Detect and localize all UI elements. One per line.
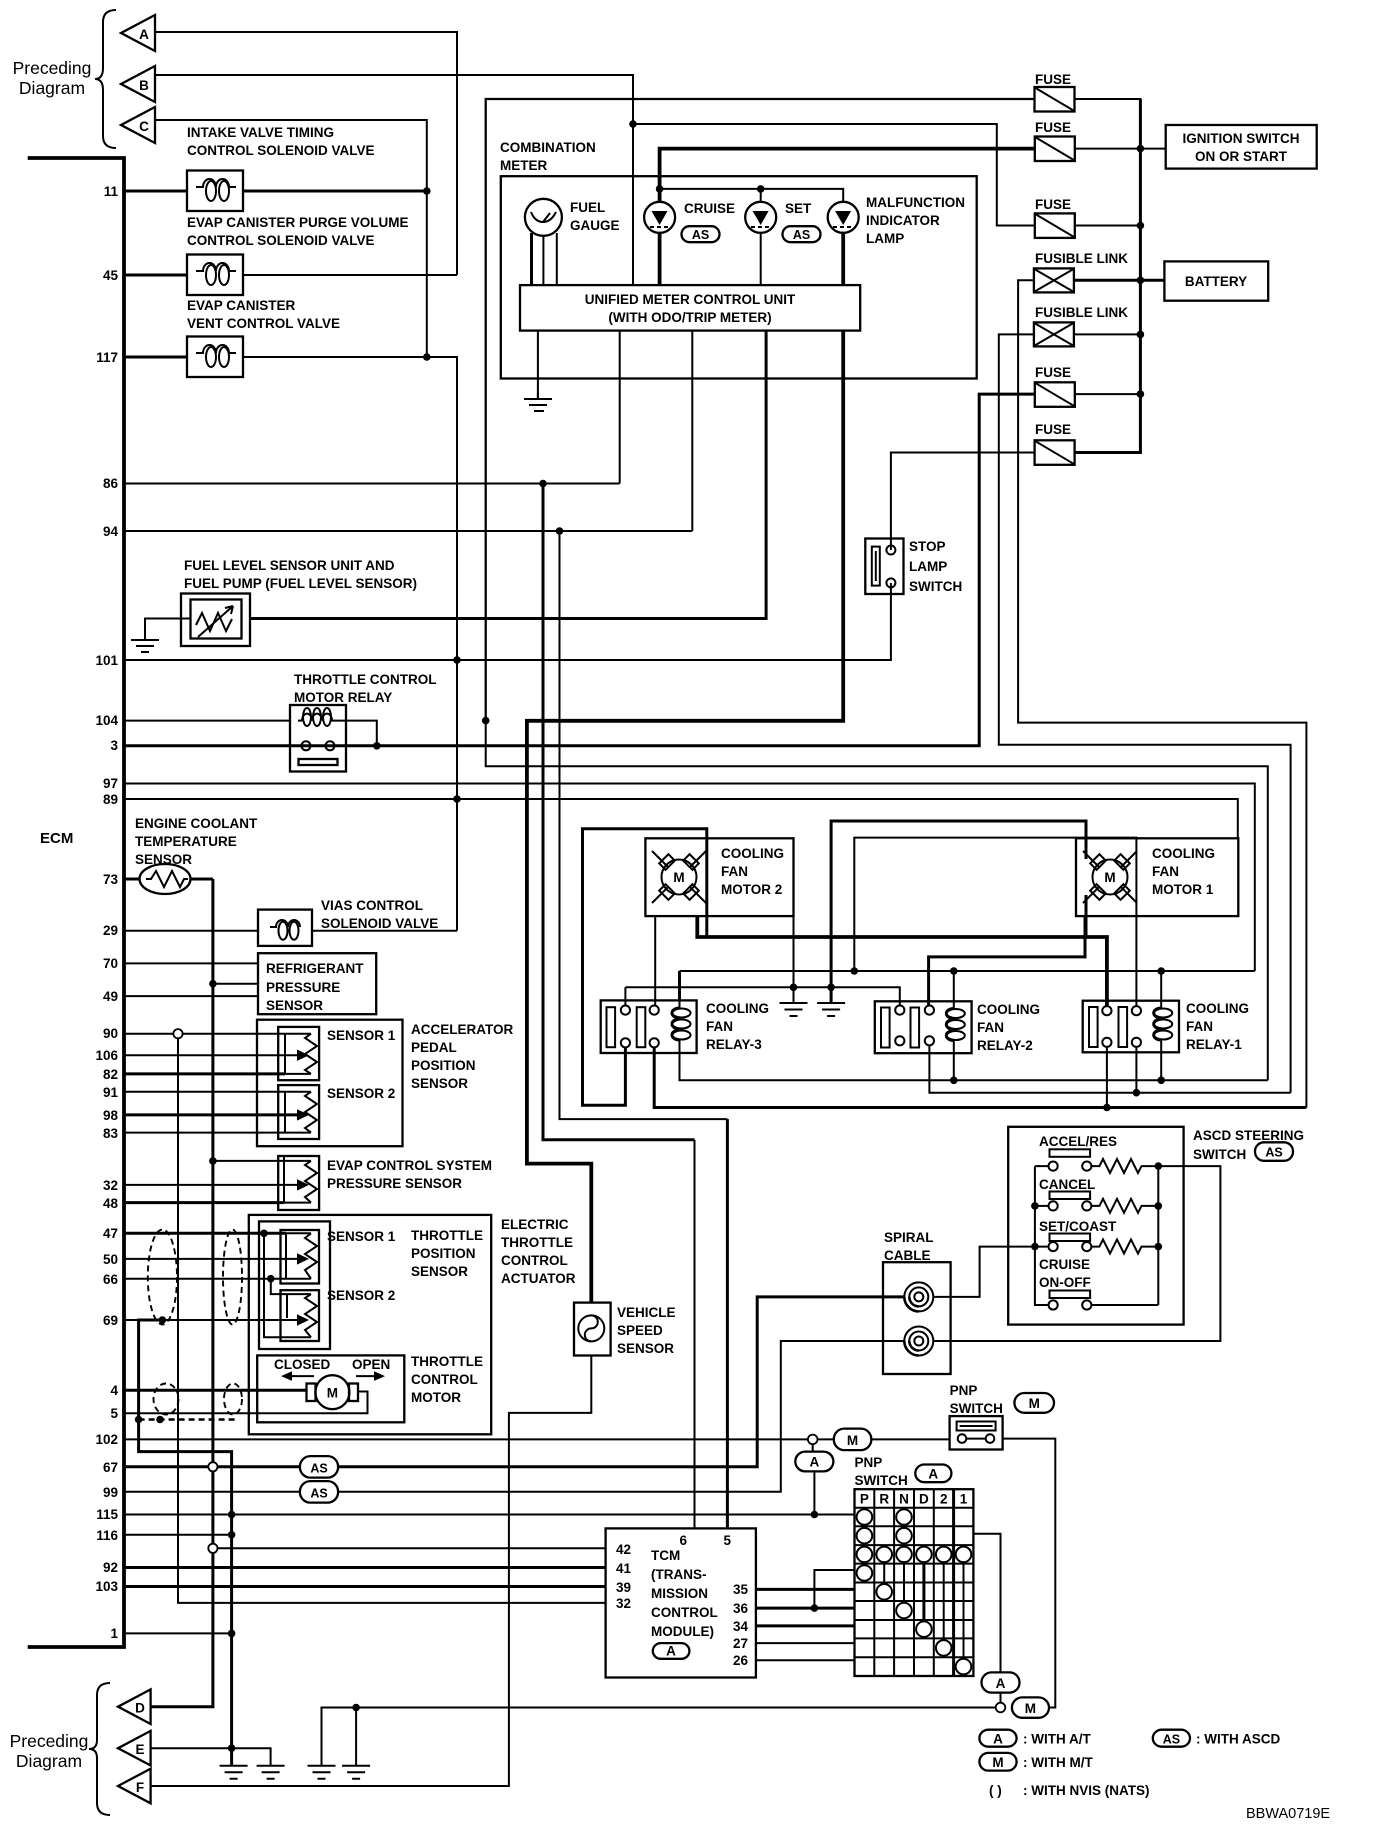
wire: set lamp to UMCU xyxy=(760,233,762,285)
svg-text:5: 5 xyxy=(723,1533,731,1548)
svg-text:SENSOR 1: SENSOR 1 xyxy=(327,1028,396,1043)
wire: ECM 94 to UMCU vertical xyxy=(124,530,692,532)
svg-text:THROTTLE CONTROL: THROTTLE CONTROL xyxy=(294,672,436,687)
connector circle: 90 line tap xyxy=(173,1029,182,1038)
refrigerant pressure sensor box xyxy=(258,953,376,1014)
switch button (accel/res) xyxy=(1050,1149,1091,1157)
wire: cruise on-off to right bus xyxy=(1091,1304,1158,1306)
junction: set/coast at left bus (spiral feed) xyxy=(1031,1243,1039,1251)
wire: ECM 115 to PNP switch (AT) grid row 1 xyxy=(124,1514,855,1516)
svg-text:FUSE: FUSE xyxy=(1035,120,1071,135)
wire: 36 branch up to PNP grid row 4 xyxy=(814,1570,854,1608)
TCM box xyxy=(606,1528,756,1677)
svg-text:(WITH ODO/TRIP METER): (WITH ODO/TRIP METER) xyxy=(608,310,771,325)
wire: ECM 90 to APPS sensor 1 supply xyxy=(124,1033,285,1035)
arrow: closed direction xyxy=(292,1375,314,1377)
wire: 47 branch down to TPS sensor 2 return xyxy=(264,1233,311,1337)
svg-text:EVAP CANISTER PURGE VOLUME: EVAP CANISTER PURGE VOLUME xyxy=(187,215,409,230)
wire: fusible link 1 load side down to cooling fan relay contact bus xyxy=(1018,280,1306,1107)
switch button (cruise on-off) xyxy=(1050,1291,1091,1299)
svg-text:47: 47 xyxy=(103,1226,118,1241)
svg-text:EVAP CANISTER: EVAP CANISTER xyxy=(187,298,296,313)
M pill (on 102 line) xyxy=(834,1429,872,1451)
junction: ground bus at ground 2 xyxy=(827,984,835,992)
wire: ECM 103 to TCM pin 39 xyxy=(124,1585,606,1588)
svg-text:99: 99 xyxy=(103,1485,118,1500)
wire: B right, down x633 to unified meter control unit xyxy=(155,75,633,285)
battery rail vertical xyxy=(1075,99,1141,453)
junction: relay 2 coil at return bus xyxy=(950,1077,958,1085)
wire: cruise lamp to UMCU xyxy=(658,233,662,285)
svg-text:RELAY-3: RELAY-3 xyxy=(706,1037,762,1052)
engine coolant temperature sensor (thermistor) xyxy=(140,864,191,894)
connector triangle F xyxy=(118,1769,151,1804)
wire: motor 1 upper-left brush to ground 2 xyxy=(831,821,1086,1003)
throttle control motor box xyxy=(257,1355,404,1422)
svg-text:CONTROL SOLENOID VALVE: CONTROL SOLENOID VALVE xyxy=(187,143,375,158)
svg-text:A: A xyxy=(666,1644,676,1659)
svg-text:R: R xyxy=(879,1492,889,1507)
junction: ground 4 tap xyxy=(352,1704,360,1712)
svg-text:COMBINATION: COMBINATION xyxy=(500,140,596,155)
switch button (cancel) xyxy=(1050,1192,1091,1200)
solenoid valve (EVAP canister purge volume) xyxy=(187,255,243,296)
accelerator pedal position sensor outer box xyxy=(257,1020,403,1146)
wire: fuse 3 to battery rail xyxy=(1075,225,1141,227)
unified meter control unit box xyxy=(520,285,860,331)
wire: 86 branch down to TCM pin 6 xyxy=(543,484,695,1140)
wire: spiral cable wire 1 to ASCD steering switch xyxy=(933,1247,1050,1297)
svg-text:104: 104 xyxy=(95,713,118,728)
junction: x457 at 101-line xyxy=(453,656,461,664)
wire: ECM 101 to stop lamp switch xyxy=(124,583,891,660)
spiral symbol 2 xyxy=(904,1327,933,1356)
junction: rail at battery xyxy=(1137,277,1145,285)
AS pill (cruise) xyxy=(682,226,720,242)
switch contacts (cancel) xyxy=(1049,1201,1058,1210)
svg-text:FAN: FAN xyxy=(1152,864,1179,879)
svg-text:CRUISE: CRUISE xyxy=(1039,1257,1090,1272)
svg-text:FUSE: FUSE xyxy=(1035,365,1071,380)
fusible link 2 xyxy=(1034,322,1074,346)
junction: 116 line at ground chain xyxy=(228,1531,236,1539)
wire: 66 branch down to TPS sensor 2 supply xyxy=(271,1279,287,1294)
junction: 36 line branch xyxy=(811,1604,819,1612)
svg-text:MISSION: MISSION xyxy=(651,1586,708,1601)
svg-text:50: 50 xyxy=(103,1252,118,1267)
brace (bottom) xyxy=(89,1683,110,1815)
svg-text:FAN: FAN xyxy=(721,864,748,879)
svg-text:SENSOR: SENSOR xyxy=(617,1341,674,1356)
wire: motor 1 right lead / relay1 feed and link bus xyxy=(854,838,1136,1006)
junction: rail at fuse 3 xyxy=(1137,222,1145,230)
svg-text:CONTROL: CONTROL xyxy=(501,1253,568,1268)
PNP grid contacts column N xyxy=(896,1509,912,1618)
junction: cancel row at left bus xyxy=(1031,1202,1039,1210)
ignition switch box xyxy=(1166,125,1317,169)
junction: E line at shield chain xyxy=(228,1744,236,1752)
shield ellipse (motor harness, right) xyxy=(224,1384,242,1415)
svg-text:COOLING: COOLING xyxy=(1152,846,1215,861)
wire: UMCU thick lead down-left-down to vehicle speed sensor xyxy=(527,331,843,1303)
svg-text:FUSE: FUSE xyxy=(1035,197,1071,212)
svg-text:ON OR START: ON OR START xyxy=(1195,149,1288,164)
svg-text:3: 3 xyxy=(110,738,118,753)
svg-text:F: F xyxy=(136,1780,144,1795)
svg-text:67: 67 xyxy=(103,1460,118,1475)
svg-text:ACCEL/RES: ACCEL/RES xyxy=(1039,1134,1117,1149)
relay coil top bus (from ECM 97) xyxy=(680,970,1255,972)
svg-text:48: 48 xyxy=(103,1196,119,1211)
wire: fusible link 2 to battery rail xyxy=(1074,333,1141,335)
svg-text:MODULE): MODULE) xyxy=(651,1624,714,1639)
wire: TCM 35 to PNP grid row 5 xyxy=(756,1588,855,1591)
wire: TCM 26 to PNP grid row 9 xyxy=(756,1659,855,1661)
svg-text:LAMP: LAMP xyxy=(866,231,904,246)
wire: ECM 11 to solenoid xyxy=(124,190,187,193)
svg-text:103: 103 xyxy=(95,1579,118,1594)
wire: ECM 117 to solenoid xyxy=(124,356,187,359)
svg-text:SPEED: SPEED xyxy=(617,1323,663,1338)
cruise indicator lamp xyxy=(644,202,675,233)
junction: relay 1 bottom contact 2 at bus 2 xyxy=(1133,1089,1141,1097)
electric throttle control actuator outer box xyxy=(249,1215,491,1434)
svg-text:32: 32 xyxy=(616,1596,631,1611)
svg-text:CONTROL: CONTROL xyxy=(411,1372,478,1387)
wire: shield drain jog down to ground chain xyxy=(139,1320,232,1766)
svg-text:: WITH M/T: : WITH M/T xyxy=(1023,1755,1093,1770)
APPS sensor 2 box xyxy=(278,1085,319,1139)
wire: sensor ground to EVAP pressure sensor supply xyxy=(213,1156,284,1161)
svg-text:LAMP: LAMP xyxy=(909,559,947,574)
svg-text:FUSIBLE LINK: FUSIBLE LINK xyxy=(1035,305,1128,320)
svg-text:6: 6 xyxy=(679,1533,687,1548)
svg-text:42: 42 xyxy=(616,1542,631,1557)
wire+resistor (set/coast row) xyxy=(1091,1240,1158,1254)
wire: ECM 70 to refrigerant sensor xyxy=(124,962,258,964)
cooling fan motor 2 assembly box xyxy=(645,838,793,916)
ASCD left contact bus xyxy=(1035,1166,1049,1305)
svg-text:: WITH ASCD: : WITH ASCD xyxy=(1196,1732,1280,1747)
spiral symbol 1 xyxy=(904,1282,933,1311)
wire: 90 tap down to TCM pin 32 xyxy=(178,1038,606,1603)
svg-text:83: 83 xyxy=(103,1126,119,1141)
svg-text:1: 1 xyxy=(110,1626,118,1641)
svg-text:73: 73 xyxy=(103,872,119,887)
svg-text:M: M xyxy=(1029,1396,1040,1411)
wire: relay 2 bottom contact 2 to contact feed bus 2 xyxy=(929,1045,1290,1092)
svg-text:C: C xyxy=(139,119,149,134)
svg-text:82: 82 xyxy=(103,1067,118,1082)
wire: ECM 89 right and down to cooling fan motor 1 box xyxy=(124,799,1238,838)
wire: C right, down x426 to 11-line and 117-line xyxy=(155,120,427,357)
switch contacts (accel/res) xyxy=(1049,1162,1058,1171)
svg-text:SWITCH: SWITCH xyxy=(1193,1147,1246,1162)
svg-text:A: A xyxy=(996,1676,1006,1691)
junction: link bus at relay coil bus xyxy=(851,967,859,975)
wire: ECM 106 wiper arrow into APPS sensor 1 xyxy=(124,1054,297,1056)
wire: A branch from 102 circle down to A pill xyxy=(812,1444,814,1451)
connector triangle B xyxy=(121,66,155,102)
junction: ignition switch node xyxy=(1137,145,1145,153)
wire: relay 1 coil bottom to coil return bus xyxy=(1160,1052,1162,1080)
svg-text:(TRANS-: (TRANS- xyxy=(651,1567,707,1582)
svg-text:FUEL: FUEL xyxy=(570,200,605,215)
cooling fan relay 2 xyxy=(875,1001,972,1053)
svg-text:86: 86 xyxy=(103,476,119,491)
wire: ECM 98 wiper arrow into APPS sensor 2 xyxy=(124,1113,297,1116)
svg-text:29: 29 xyxy=(103,923,118,938)
svg-text:ON-OFF: ON-OFF xyxy=(1039,1275,1091,1290)
M pill (MT return) xyxy=(1012,1697,1049,1717)
wire: ECM 4 to throttle motor xyxy=(124,1389,307,1392)
svg-text:M: M xyxy=(992,1755,1003,1770)
wire: ground 4 stem xyxy=(355,1708,357,1766)
set indicator lamp xyxy=(745,202,776,233)
svg-text:FUEL PUMP (FUEL LEVEL SENSOR): FUEL PUMP (FUEL LEVEL SENSOR) xyxy=(184,576,417,591)
PNP grid contacts column D xyxy=(916,1547,932,1637)
svg-text:39: 39 xyxy=(616,1580,631,1595)
wire: ECM 32 wiper arrow into EVAP pressure sensor xyxy=(124,1184,297,1186)
switch contacts (cruise on-off) xyxy=(1049,1300,1058,1309)
junction: pin 1 line at ground chain xyxy=(228,1630,236,1638)
wire: TCM 36 to PNP grid row 6 xyxy=(756,1607,855,1610)
svg-text:1: 1 xyxy=(960,1492,968,1507)
svg-text:SET/COAST: SET/COAST xyxy=(1039,1219,1117,1234)
wire: B branch y124 to fuse 3 xyxy=(633,124,1035,226)
wire: fuse 5 to stop lamp switch xyxy=(891,453,1035,551)
junction: C vertical at 117-line xyxy=(423,353,431,361)
svg-text:FUSE: FUSE xyxy=(1035,72,1071,87)
svg-text:BBWA0719E: BBWA0719E xyxy=(1246,1806,1330,1822)
svg-text:PNP: PNP xyxy=(950,1383,978,1398)
junction: shield tie at 4/5 shield xyxy=(135,1416,143,1424)
svg-text:ELECTRIC: ELECTRIC xyxy=(501,1217,569,1232)
svg-text:27: 27 xyxy=(733,1636,748,1651)
svg-text:( ): ( ) xyxy=(989,1783,1002,1798)
ground 4 xyxy=(342,1766,370,1779)
svg-text:Diagram: Diagram xyxy=(16,1751,82,1771)
svg-text:5: 5 xyxy=(110,1406,118,1421)
svg-text:AS: AS xyxy=(1163,1733,1180,1747)
shield ellipse (motor harness, left) xyxy=(154,1384,179,1415)
wire: fusible link 1 to battery rail xyxy=(1074,279,1141,282)
wire: ECM 116 to ground chain xyxy=(124,1534,232,1536)
svg-text:94: 94 xyxy=(103,524,119,539)
wire: motor return loop to ECM 5 xyxy=(124,1392,368,1414)
svg-text:SWITCH: SWITCH xyxy=(909,579,962,594)
A pill (PNP AT label) xyxy=(915,1465,951,1483)
svg-text:41: 41 xyxy=(616,1561,632,1576)
solenoid valve (intake valve timing control) xyxy=(187,171,243,212)
svg-text:A: A xyxy=(993,1732,1003,1747)
junction: rail at fuse 4 xyxy=(1137,390,1145,398)
svg-text:THROTTLE: THROTTLE xyxy=(411,1228,483,1243)
svg-text:SET: SET xyxy=(785,201,812,216)
svg-text:CONTROL SOLENOID VALVE: CONTROL SOLENOID VALVE xyxy=(187,233,375,248)
svg-text:FUEL LEVEL SENSOR UNIT AND: FUEL LEVEL SENSOR UNIT AND xyxy=(184,558,395,573)
combination meter inner box xyxy=(501,176,977,378)
A pill (branch to PNP switch AT) xyxy=(795,1452,833,1472)
svg-text:SENSOR: SENSOR xyxy=(411,1264,468,1279)
AS pill (99 line) xyxy=(300,1481,338,1503)
svg-text:POSITION: POSITION xyxy=(411,1246,476,1261)
svg-text:36: 36 xyxy=(733,1601,749,1616)
wire: ECT sensor output to sensor ground line xyxy=(191,878,213,881)
wire: A to EVAP purge solenoid output (down x457 to 45-line) xyxy=(155,32,457,275)
svg-text:SWITCH: SWITCH xyxy=(950,1401,1003,1416)
svg-text:POSITION: POSITION xyxy=(411,1058,476,1073)
junction: 115 line meets A pill drop xyxy=(811,1511,819,1519)
svg-text:N: N xyxy=(899,1492,909,1507)
connector triangle E xyxy=(118,1731,151,1766)
svg-text:2: 2 xyxy=(940,1492,948,1507)
junction: accel/res to right bus xyxy=(1155,1162,1163,1170)
svg-text:MOTOR 1: MOTOR 1 xyxy=(1152,882,1214,897)
svg-text:SENSOR 1: SENSOR 1 xyxy=(327,1229,396,1244)
ground 2 (triangle E) xyxy=(257,1766,285,1779)
svg-text:CANCEL: CANCEL xyxy=(1039,1177,1095,1192)
wire: fuse 2 to ignition switch xyxy=(1075,148,1166,150)
junction: 66 branch to sensor 2 supply xyxy=(267,1275,275,1283)
junction: 115 line at ground chain xyxy=(228,1511,236,1519)
cooling fan relay 3 xyxy=(601,1000,697,1053)
wire+resistor (cancel row) xyxy=(1091,1199,1158,1213)
svg-text:91: 91 xyxy=(103,1085,119,1100)
svg-text:69: 69 xyxy=(103,1313,118,1328)
junction: rail at fusible link 2 xyxy=(1137,331,1145,339)
svg-text:FUSE: FUSE xyxy=(1035,422,1071,437)
EVAP control system pressure sensor box xyxy=(278,1156,319,1210)
svg-text:UNIFIED METER CONTROL UNIT: UNIFIED METER CONTROL UNIT xyxy=(585,292,796,307)
svg-text:SENSOR: SENSOR xyxy=(411,1076,468,1091)
junction: x457 at 89-line xyxy=(453,795,461,803)
wire: relay 1 bottom contact 1 to contact feed bus xyxy=(1106,1047,1108,1108)
TPS sensor 2 box xyxy=(281,1290,320,1341)
wire: ECM 47 to TPS sensor 1 supply xyxy=(124,1232,286,1235)
svg-text:BATTERY: BATTERY xyxy=(1185,274,1247,289)
wire: relay 3 coil bottom to coil return bus xyxy=(680,1053,1268,1080)
fuse 2 xyxy=(1035,137,1075,162)
svg-text:ENGINE COOLANT: ENGINE COOLANT xyxy=(135,816,258,831)
PNP grid contacts column R xyxy=(876,1547,892,1600)
svg-text:THROTTLE: THROTTLE xyxy=(501,1235,573,1250)
wire: motor 2 left brush to relay 3 xyxy=(654,916,656,1006)
svg-text:MALFUNCTION: MALFUNCTION xyxy=(866,195,965,210)
svg-text:MOTOR RELAY: MOTOR RELAY xyxy=(294,690,392,705)
wire: ECM 99 to AS pill to spiral cable wire 2 xyxy=(124,1341,905,1492)
svg-text:: WITH A/T: : WITH A/T xyxy=(1023,1732,1091,1747)
A pill (legend) xyxy=(979,1730,1016,1747)
ASCD right bus xyxy=(1157,1166,1159,1305)
wire: relay coil output down to 3-line xyxy=(338,721,377,746)
fuse 1 xyxy=(1035,87,1075,112)
svg-text:AS: AS xyxy=(310,1487,327,1501)
wire: UMCU ground lead xyxy=(537,331,539,399)
svg-text:CLOSED: CLOSED xyxy=(274,1357,331,1372)
wire: motor2 right link down to relay 1 top contact 1 xyxy=(697,916,1107,1006)
wire+resistor (accel/res row) xyxy=(1091,1159,1158,1173)
fuse 5 xyxy=(1035,440,1075,465)
fuse 4 xyxy=(1035,382,1075,407)
wire: solenoid 117 output right and down x457 (dots at 101,89 lines, ends at VIAS output) xyxy=(243,357,457,931)
junction: sensor ground to refrigerant sensor xyxy=(209,980,217,988)
svg-text:REFRIGERANT: REFRIGERANT xyxy=(266,961,364,976)
svg-text:A: A xyxy=(928,1467,938,1482)
junction: lamp bus at set lamp xyxy=(757,185,765,193)
wire: A pill to ground line circle xyxy=(1000,1693,1002,1703)
APPS sensor 1 box xyxy=(278,1027,319,1080)
svg-text:ASCD STEERING: ASCD STEERING xyxy=(1193,1128,1304,1143)
svg-text:11: 11 xyxy=(104,184,119,199)
junction: cancel row at right bus xyxy=(1155,1202,1163,1210)
wire: TCM 34 to PNP grid row 7 xyxy=(756,1624,855,1627)
svg-text:PEDAL: PEDAL xyxy=(411,1040,457,1055)
svg-text:E: E xyxy=(135,1742,144,1757)
wire: ECM 82 to APPS sensor 1 return xyxy=(124,1072,285,1075)
junction: ground bus at ground 1 xyxy=(790,984,798,992)
wire: solenoid 45 output to node A vertical xyxy=(243,274,457,276)
wire: PNP grid row 2 to A pill (AT return) xyxy=(973,1534,1000,1673)
wire: solenoid 11 output to node C xyxy=(243,190,427,193)
svg-text:COOLING: COOLING xyxy=(706,1001,769,1016)
wire: motor 2 corner to ground 1 xyxy=(793,916,795,1003)
svg-text:90: 90 xyxy=(103,1026,118,1041)
svg-text:Preceding: Preceding xyxy=(10,1731,89,1751)
PNP grid contacts column 2 xyxy=(936,1547,952,1656)
wire: relay 2 coil top to bus xyxy=(953,971,955,1001)
svg-text:32: 32 xyxy=(103,1178,118,1193)
fuse 3 xyxy=(1035,213,1075,238)
svg-text:IGNITION SWITCH: IGNITION SWITCH xyxy=(1183,131,1300,146)
ground bus (relay3 to relay2 top contacts) xyxy=(625,987,899,1005)
svg-text:M: M xyxy=(847,1433,858,1448)
svg-text:M: M xyxy=(1025,1701,1036,1716)
svg-text:SOLENOID VALVE: SOLENOID VALVE xyxy=(321,916,438,931)
combination meter outer box / wire to fuse 1 xyxy=(486,99,1035,721)
wire: relay3 output up through motor 2 to motor 1 (series link) xyxy=(583,829,1087,1106)
fuel gauge xyxy=(525,199,562,236)
wire: ECM 49 to refrigerant sensor xyxy=(124,995,258,997)
junction: sensor ground to EVAP pressure sensor xyxy=(209,1157,217,1165)
svg-text:45: 45 xyxy=(103,268,119,283)
switch contacts (set/coast) xyxy=(1049,1242,1058,1251)
connector triangle D xyxy=(118,1689,151,1724)
svg-text:92: 92 xyxy=(103,1560,118,1575)
svg-text:B: B xyxy=(139,78,149,93)
ground 3 xyxy=(308,1766,336,1779)
svg-text:INTAKE VALVE TIMING: INTAKE VALVE TIMING xyxy=(187,125,334,140)
wire: set lamp top lead xyxy=(760,189,762,202)
wire: motor 1 lower-left lead to relay 2 contact xyxy=(929,916,1085,1006)
svg-text:AS: AS xyxy=(793,228,810,242)
junction: 47 branch to sensor 2 return xyxy=(260,1230,268,1238)
junction: 104 branch to cooling fan relay coils xyxy=(482,717,490,725)
junction: relay output on 3-line xyxy=(373,742,381,750)
PNP switch (MT) box xyxy=(950,1416,1003,1449)
svg-text:FAN: FAN xyxy=(706,1019,733,1034)
wire: VIAS output to x457 vertical xyxy=(312,930,457,932)
svg-text:A: A xyxy=(810,1455,820,1470)
A pill (AT return) xyxy=(982,1672,1020,1692)
svg-text:49: 49 xyxy=(103,989,118,1004)
svg-text:SENSOR 2: SENSOR 2 xyxy=(327,1086,395,1101)
svg-text:EVAP CONTROL SYSTEM: EVAP CONTROL SYSTEM xyxy=(327,1158,492,1173)
connector circle on 102 line xyxy=(808,1435,818,1445)
svg-text:: WITH NVIS (NATS): : WITH NVIS (NATS) xyxy=(1023,1783,1149,1798)
svg-text:FUSIBLE LINK: FUSIBLE LINK xyxy=(1035,251,1128,266)
svg-text:97: 97 xyxy=(103,776,118,791)
